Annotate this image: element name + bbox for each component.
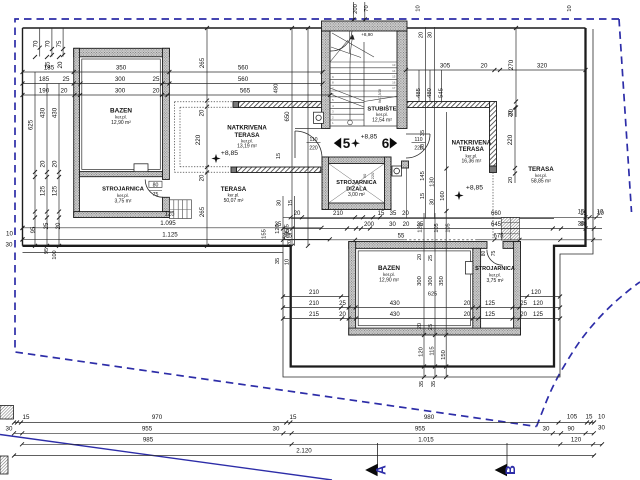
svg-text:120: 120 bbox=[533, 301, 544, 307]
door swing arc left of landing bbox=[294, 131, 296, 158]
dimension row 185/25/300/25/560 bbox=[23, 83, 323, 85]
svg-text:+8,85: +8,85 bbox=[466, 185, 483, 192]
right dimension row 305/20/320 at y=70 bbox=[406, 69, 586, 71]
dimension rows below lower building bbox=[283, 296, 349, 298]
svg-text:25: 25 bbox=[428, 255, 434, 261]
svg-text:B: B bbox=[503, 465, 518, 475]
lower building left wall bbox=[349, 242, 356, 336]
dimension row 185/350/560 bbox=[23, 71, 323, 73]
svg-text:30: 30 bbox=[6, 425, 13, 432]
vertical dimension chain x=292 and x=308 bbox=[291, 28, 293, 246]
svg-text:10: 10 bbox=[285, 259, 291, 265]
svg-text:STROJARNICA: STROJARNICA bbox=[102, 187, 145, 193]
svg-text:STROJARNICA: STROJARNICA bbox=[336, 180, 376, 186]
svg-text:35: 35 bbox=[275, 222, 282, 228]
svg-text:35: 35 bbox=[431, 381, 437, 387]
svg-text:ker.pl.: ker.pl. bbox=[383, 272, 395, 277]
svg-text:15: 15 bbox=[276, 153, 282, 159]
svg-text:120: 120 bbox=[571, 437, 582, 444]
hatched parapet wall A upper bbox=[239, 102, 323, 108]
svg-text:20: 20 bbox=[481, 63, 488, 70]
svg-text:120: 120 bbox=[419, 347, 425, 357]
svg-text:480: 480 bbox=[427, 88, 433, 98]
terrace parapet - thick outline upper right and lower terrace bbox=[23, 28, 586, 367]
door swing arc right of landing bbox=[406, 133, 430, 135]
column box with circle right of lift room bbox=[392, 166, 402, 176]
pool niche box on divider wall bbox=[134, 164, 148, 172]
svg-text:955: 955 bbox=[142, 425, 153, 432]
svg-text:20: 20 bbox=[56, 222, 62, 229]
svg-text:970: 970 bbox=[152, 414, 163, 421]
svg-text:95: 95 bbox=[44, 248, 50, 254]
stair treads right flight bbox=[364, 61, 397, 63]
svg-text:20: 20 bbox=[464, 312, 471, 318]
wall between BAZEN and STROJARNICA bbox=[80, 172, 163, 177]
stair winder steps top bbox=[330, 31, 352, 51]
svg-text:265: 265 bbox=[199, 57, 206, 68]
svg-text:160: 160 bbox=[440, 191, 446, 201]
svg-text:20: 20 bbox=[402, 211, 409, 217]
exterior steps right of pool building bbox=[169, 200, 191, 219]
dimension lines 1.095 and 1.125 bbox=[23, 227, 322, 229]
svg-text:430: 430 bbox=[390, 312, 401, 318]
top-left dimension stubs 70/70/75 bbox=[39, 28, 41, 57]
svg-text:NATKRIVENA: NATKRIVENA bbox=[227, 125, 267, 132]
svg-text:10: 10 bbox=[597, 210, 604, 216]
small wall step right of lift room bbox=[402, 161, 409, 168]
svg-text:58,85 m²: 58,85 m² bbox=[531, 178, 551, 184]
svg-text:ker.pl.: ker.pl. bbox=[117, 193, 129, 198]
svg-text:ker.pl.: ker.pl. bbox=[535, 173, 547, 178]
svg-text:30: 30 bbox=[543, 425, 550, 432]
svg-text:20: 20 bbox=[464, 301, 471, 307]
plot line - solid blue diagonal at bottom bbox=[0, 435, 332, 480]
svg-text:20: 20 bbox=[200, 109, 206, 116]
stair treads left flight bbox=[330, 61, 364, 63]
STROJARNICA DIZALA walls bbox=[322, 157, 391, 164]
svg-text:16: 16 bbox=[392, 80, 396, 84]
svg-text:20: 20 bbox=[57, 61, 64, 68]
svg-text:200: 200 bbox=[353, 4, 359, 14]
svg-text:210: 210 bbox=[333, 211, 344, 217]
svg-text:80: 80 bbox=[481, 251, 487, 257]
svg-text:20: 20 bbox=[403, 222, 410, 228]
svg-text:1.015: 1.015 bbox=[418, 436, 434, 443]
svg-text:55: 55 bbox=[398, 233, 405, 239]
svg-text:30: 30 bbox=[428, 32, 434, 38]
central vertical dimension chain x=207 bbox=[206, 28, 208, 246]
bottom dimension row 2: 30/955/30/955/30/90/30 bbox=[14, 432, 594, 434]
exterior steps at lower terrace bbox=[501, 218, 519, 241]
svg-text:75: 75 bbox=[153, 192, 159, 198]
svg-text:300: 300 bbox=[115, 76, 126, 83]
svg-text:5: 5 bbox=[343, 136, 351, 151]
svg-text:20: 20 bbox=[61, 88, 68, 95]
stair flight divider bbox=[363, 42, 365, 126]
svg-text:20: 20 bbox=[40, 160, 47, 167]
svg-text:20: 20 bbox=[339, 312, 346, 318]
svg-text:20: 20 bbox=[417, 254, 423, 260]
svg-text:560: 560 bbox=[238, 65, 249, 72]
pool building right wall with door opening bbox=[163, 48, 170, 179]
svg-text:13: 13 bbox=[392, 63, 396, 67]
svg-text:50,07 m²: 50,07 m² bbox=[224, 198, 244, 204]
vertical dim 20/220/20 at x=515 right side bbox=[514, 108, 516, 184]
svg-text:300: 300 bbox=[115, 88, 126, 95]
svg-text:25: 25 bbox=[153, 76, 160, 83]
svg-text:30: 30 bbox=[6, 242, 13, 249]
landing floor line bbox=[295, 128, 326, 130]
svg-text:BAZEN: BAZEN bbox=[110, 107, 132, 114]
svg-text:185: 185 bbox=[39, 76, 50, 83]
svg-text:20: 20 bbox=[417, 323, 423, 329]
bottom left hatched fragment bbox=[0, 456, 8, 474]
interior vertical dim lines of lower building bbox=[423, 213, 425, 377]
svg-text:35: 35 bbox=[417, 222, 424, 228]
svg-text:10: 10 bbox=[416, 5, 422, 11]
covered terrace NATKRIVENA TERASA 13,19 dotted outline bbox=[175, 101, 234, 103]
svg-text:30: 30 bbox=[430, 199, 436, 205]
site outline left edge bbox=[22, 28, 24, 246]
svg-text:100: 100 bbox=[52, 250, 58, 259]
svg-text:2.120: 2.120 bbox=[296, 448, 312, 455]
svg-text:430: 430 bbox=[52, 107, 59, 118]
svg-text:20: 20 bbox=[508, 111, 514, 117]
svg-text:650: 650 bbox=[285, 111, 291, 122]
svg-text:485: 485 bbox=[416, 88, 422, 98]
svg-text:1.125: 1.125 bbox=[162, 231, 178, 238]
svg-text:15: 15 bbox=[578, 210, 585, 216]
svg-text:15: 15 bbox=[420, 193, 426, 199]
svg-text:25: 25 bbox=[63, 76, 70, 83]
svg-text:20: 20 bbox=[153, 88, 160, 95]
svg-text:200: 200 bbox=[364, 222, 375, 228]
rotated dims 485 480 545 bbox=[418, 70, 420, 102]
svg-text:BAZEN: BAZEN bbox=[378, 265, 400, 272]
svg-text:305: 305 bbox=[440, 63, 451, 70]
terrace outer thin offset line bbox=[23, 29, 594, 377]
svg-text:+8,85: +8,85 bbox=[221, 150, 238, 157]
svg-text:350: 350 bbox=[116, 65, 127, 72]
svg-text:565: 565 bbox=[240, 88, 251, 95]
svg-text:25: 25 bbox=[339, 301, 346, 307]
dotted continuation of covered terrace boundary bbox=[492, 173, 494, 241]
lower building top wall with door gap bbox=[349, 242, 487, 249]
svg-text:6: 6 bbox=[382, 136, 390, 151]
svg-text:125: 125 bbox=[485, 301, 496, 307]
dimension row 190/20/300/20/565 bbox=[23, 94, 331, 96]
left vertical dimension columns bbox=[34, 72, 36, 246]
svg-text:ker.pl.: ker.pl. bbox=[115, 115, 127, 120]
svg-text:265: 265 bbox=[282, 233, 293, 239]
hatched parapet wall B bbox=[237, 167, 321, 173]
svg-text:30: 30 bbox=[273, 425, 280, 432]
section marker 5 bbox=[334, 138, 341, 149]
door arc of STROJARNICA bbox=[145, 180, 163, 198]
svg-text:25: 25 bbox=[520, 301, 527, 307]
svg-text:15: 15 bbox=[290, 414, 297, 421]
svg-text:20: 20 bbox=[294, 211, 301, 217]
bottom dimension row 4: 2.120 bbox=[14, 455, 594, 457]
svg-text:145: 145 bbox=[420, 171, 426, 181]
svg-text:20: 20 bbox=[420, 144, 426, 150]
wall between lower BAZEN and STROJARNICA bbox=[473, 248, 481, 328]
section marker A bbox=[377, 443, 379, 470]
staircase STUBISTE walls bbox=[322, 21, 408, 31]
left edge hatched wall fragment bbox=[0, 406, 14, 420]
svg-text:125: 125 bbox=[485, 312, 496, 318]
lower terrace step edge bbox=[291, 218, 554, 220]
svg-text:15: 15 bbox=[23, 414, 30, 421]
svg-text:20: 20 bbox=[287, 240, 293, 246]
svg-text:430: 430 bbox=[390, 301, 401, 307]
svg-text:300: 300 bbox=[417, 276, 423, 286]
svg-text:545: 545 bbox=[439, 88, 445, 98]
bottom dimension row 1: 10/15/970/15/980/105/15/10 bbox=[14, 422, 594, 424]
svg-text:20: 20 bbox=[419, 32, 425, 38]
svg-text:430: 430 bbox=[40, 107, 47, 118]
svg-text:ker.pl.: ker.pl. bbox=[228, 193, 240, 198]
svg-text:+8,90: +8,90 bbox=[361, 32, 373, 37]
svg-text:215: 215 bbox=[309, 312, 320, 318]
svg-text:625: 625 bbox=[28, 119, 35, 130]
svg-text:15: 15 bbox=[288, 200, 294, 206]
svg-text:210: 210 bbox=[309, 290, 320, 296]
lower pool edge inner line bbox=[358, 251, 470, 326]
hatched parapet wall - vertical right bbox=[490, 102, 497, 167]
svg-text:ker.pl.: ker.pl. bbox=[489, 272, 501, 277]
svg-text:270: 270 bbox=[508, 59, 515, 70]
svg-text:10: 10 bbox=[567, 5, 573, 11]
lower building bottom wall bbox=[349, 328, 521, 335]
svg-text:105: 105 bbox=[567, 414, 578, 421]
svg-text:980: 980 bbox=[424, 414, 435, 421]
bottom dimension row 3: 985/1.015/120 bbox=[22, 443, 602, 445]
BAZEN pool edge inner line bbox=[82, 59, 161, 169]
column box with circle left of staircase bbox=[314, 112, 324, 123]
middle dims near terrace step x=283 294 bbox=[282, 196, 284, 253]
pool building outer walls bbox=[74, 48, 170, 57]
svg-text:20: 20 bbox=[200, 174, 206, 181]
svg-text:130: 130 bbox=[430, 177, 436, 187]
svg-text:125: 125 bbox=[40, 185, 47, 196]
svg-text:75: 75 bbox=[56, 40, 63, 47]
svg-text:12,54 m²: 12,54 m² bbox=[372, 117, 392, 123]
svg-text:625: 625 bbox=[428, 292, 437, 298]
svg-text:8x17,5/28: 8x17,5/28 bbox=[378, 89, 382, 103]
vertical dim 270/20 at x=516 bbox=[515, 28, 517, 117]
svg-text:120: 120 bbox=[531, 290, 542, 296]
stair break diagonals bbox=[330, 88, 364, 101]
svg-text:125: 125 bbox=[533, 312, 544, 318]
svg-text:30: 30 bbox=[598, 425, 605, 432]
svg-text:645: 645 bbox=[491, 222, 502, 228]
stair walking line with start circle bbox=[348, 120, 353, 125]
svg-text:560: 560 bbox=[238, 76, 249, 83]
svg-text:25: 25 bbox=[428, 324, 434, 330]
svg-text:320: 320 bbox=[537, 63, 548, 70]
svg-text:300: 300 bbox=[428, 276, 434, 286]
svg-text:20: 20 bbox=[52, 160, 59, 167]
svg-text:95: 95 bbox=[31, 226, 37, 233]
svg-text:480: 480 bbox=[274, 84, 280, 94]
svg-text:15: 15 bbox=[586, 414, 593, 421]
svg-text:20: 20 bbox=[520, 312, 527, 318]
svg-text:125: 125 bbox=[164, 212, 175, 218]
top dimension stubs above staircase 200/70 bbox=[353, 2, 355, 21]
door size label 80 box bbox=[149, 181, 162, 187]
svg-text:ker.pl.: ker.pl. bbox=[376, 112, 388, 117]
svg-text:16,36 m²: 16,36 m² bbox=[462, 158, 482, 164]
svg-text:30: 30 bbox=[277, 200, 283, 206]
svg-text:1.095: 1.095 bbox=[160, 220, 176, 227]
svg-text:265: 265 bbox=[199, 206, 206, 217]
section marker B bbox=[506, 443, 508, 470]
svg-text:3,00 m²: 3,00 m² bbox=[348, 192, 365, 198]
lower STROJARNICA door arc bbox=[487, 250, 503, 266]
svg-text:220: 220 bbox=[370, 172, 375, 179]
svg-text:14: 14 bbox=[392, 69, 396, 73]
svg-text:TERASA: TERASA bbox=[459, 146, 485, 153]
svg-text:125: 125 bbox=[52, 185, 59, 196]
svg-text:10: 10 bbox=[598, 414, 605, 421]
svg-text:A: A bbox=[374, 465, 389, 475]
svg-text:150: 150 bbox=[441, 350, 447, 360]
svg-text:75: 75 bbox=[491, 251, 497, 257]
elevator shaft diagonals bbox=[329, 164, 385, 204]
svg-text:660: 660 bbox=[491, 211, 502, 217]
svg-text:985: 985 bbox=[143, 436, 154, 443]
svg-text:220: 220 bbox=[309, 146, 318, 152]
pool building bottom wall bbox=[74, 212, 170, 218]
svg-text:3,75 m²: 3,75 m² bbox=[487, 278, 504, 284]
svg-text:90: 90 bbox=[568, 425, 575, 432]
lower pool niche box bbox=[465, 262, 472, 274]
svg-text:20: 20 bbox=[508, 177, 514, 183]
svg-text:12,90 m²: 12,90 m² bbox=[111, 120, 131, 126]
svg-text:70: 70 bbox=[45, 40, 52, 47]
svg-text:70: 70 bbox=[33, 40, 40, 47]
svg-text:35: 35 bbox=[275, 258, 281, 264]
svg-text:185: 185 bbox=[44, 65, 55, 72]
small stubs 20/30 right of staircase bbox=[425, 27, 427, 219]
svg-text:3,75 m²: 3,75 m² bbox=[115, 199, 132, 205]
svg-text:210: 210 bbox=[309, 301, 320, 307]
svg-text:15: 15 bbox=[392, 75, 396, 79]
level mark star upper left bbox=[211, 154, 220, 163]
svg-text:35: 35 bbox=[420, 130, 426, 136]
svg-text:30: 30 bbox=[578, 222, 585, 228]
svg-text:190: 190 bbox=[39, 88, 50, 95]
svg-text:+8,85: +8,85 bbox=[361, 133, 378, 140]
svg-text:675: 675 bbox=[493, 233, 504, 239]
svg-text:35: 35 bbox=[419, 381, 425, 387]
svg-text:17: 17 bbox=[392, 86, 396, 90]
svg-text:13,19 m²: 13,19 m² bbox=[237, 144, 257, 150]
lower building right wall bbox=[514, 242, 521, 336]
svg-text:110: 110 bbox=[415, 137, 423, 143]
svg-text:220: 220 bbox=[195, 134, 202, 145]
svg-text:30: 30 bbox=[389, 222, 396, 228]
dimension rows between terraces y=217 228 240 bbox=[283, 216, 602, 218]
svg-text:25: 25 bbox=[44, 222, 50, 229]
svg-text:350: 350 bbox=[439, 276, 445, 286]
svg-text:155: 155 bbox=[262, 229, 268, 239]
svg-text:35: 35 bbox=[390, 211, 397, 217]
svg-text:12,90 m²: 12,90 m² bbox=[379, 278, 399, 284]
svg-text:80: 80 bbox=[153, 182, 159, 188]
site outline top edge bbox=[23, 27, 586, 29]
svg-text:115: 115 bbox=[430, 346, 436, 355]
svg-text:STROJARNICA: STROJARNICA bbox=[475, 266, 515, 272]
svg-text:955: 955 bbox=[415, 425, 426, 432]
svg-text:70: 70 bbox=[364, 5, 370, 11]
svg-text:90: 90 bbox=[362, 173, 367, 178]
svg-text:15: 15 bbox=[378, 211, 385, 217]
property boundary - right side descending dashed line bbox=[619, 19, 632, 212]
svg-text:220: 220 bbox=[507, 134, 514, 145]
svg-text:10: 10 bbox=[6, 231, 13, 238]
